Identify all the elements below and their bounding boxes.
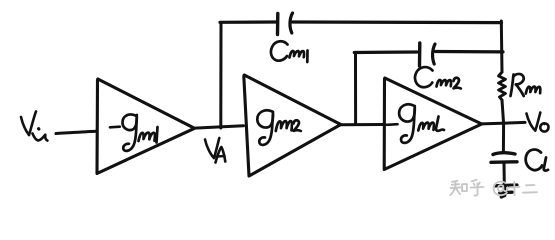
capacitor C m1 right plate — [290, 13, 293, 33]
wire Cm1 top right segment — [293, 20, 502, 24]
watermark 知乎 @十二 — [450, 180, 537, 196]
wire Vi to amp1 — [56, 131, 96, 133]
wire VA up to Cm1 — [219, 24, 222, 129]
wire amp1 output to amp2 (node VA) — [195, 126, 244, 128]
wire output node down to CL — [502, 123, 505, 152]
wire amp2 output to amp3 — [341, 123, 385, 126]
label -gmL — [387, 104, 444, 143]
wire amp3 output to Vo — [482, 122, 525, 124]
node Vi label — [21, 112, 47, 141]
resistor R m — [499, 72, 506, 100]
label Vo — [527, 113, 549, 132]
label Cm1 — [271, 41, 308, 62]
wire Rm to output node — [502, 100, 504, 124]
wire Cm1 top left segment — [220, 20, 277, 23]
capacitor C m2 left plate — [418, 43, 422, 66]
wire node up to Cm2 — [354, 54, 357, 125]
op-amp U1 (first stage) — [97, 79, 195, 174]
capacitor C m2 right plate — [433, 44, 435, 64]
label gm2 — [257, 110, 301, 145]
capacitor C m1 left plate — [276, 14, 280, 35]
capacitor C L top plate — [493, 153, 515, 155]
node VA label — [205, 138, 225, 163]
ground — [495, 185, 517, 197]
capacitor C L bottom plate — [491, 160, 517, 164]
label Rm — [511, 74, 541, 96]
wire Cm2 top right segment — [436, 50, 504, 54]
label -gm1 — [110, 114, 158, 150]
wire right vertical from Cm1 down to Rm — [500, 21, 504, 72]
op-amp U3 (output stage) — [384, 78, 482, 170]
op-amp U2 (second stage) — [244, 75, 341, 176]
wire Cm2 top left segment — [354, 50, 417, 54]
label CL — [526, 150, 548, 171]
label Cm2 — [415, 67, 461, 88]
wire CL to ground — [503, 164, 506, 185]
